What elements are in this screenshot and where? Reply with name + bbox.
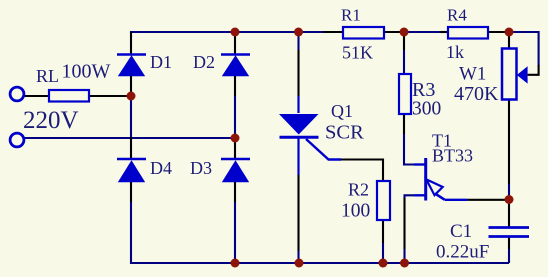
wire D3 bottom to bottom bus: [234, 202, 236, 263]
pin R2 bottom: [382, 220, 384, 243]
wire C1 bottom to bottom bus: [508, 249, 510, 263]
svg-text:D4: D4: [150, 158, 172, 178]
pin D4 anode: [130, 182, 132, 202]
pin D2 anode: [234, 76, 236, 96]
svg-text:R1: R1: [341, 6, 361, 25]
svg-text:100W: 100W: [62, 61, 111, 83]
pin W1 top: [508, 33, 510, 49]
wire D2 bottom to node: [234, 96, 236, 138]
resistor RL body: [49, 90, 89, 102]
junction bottom bus / D3: [231, 259, 240, 268]
pin D1 anode: [130, 76, 132, 96]
diode D3: [221, 159, 250, 182]
pin R1 left: [323, 31, 343, 33]
wire node A down toward D4: [130, 96, 132, 137]
pin R3 bottom: [403, 114, 405, 134]
pin D3 anode: [234, 182, 236, 202]
svg-text:W1: W1: [459, 64, 486, 85]
pin SCR anode: [297, 50, 299, 96]
svg-text:R4: R4: [447, 6, 467, 25]
junction top bus / D2: [231, 28, 240, 37]
svg-text:470K: 470K: [454, 83, 499, 105]
diode D2: [221, 55, 250, 77]
svg-text:SCR: SCR: [325, 122, 364, 144]
potentiometer W1 wiper arrow: [517, 66, 528, 83]
junction R4 / W1 top: [505, 28, 514, 37]
svg-text:D1: D1: [150, 52, 172, 72]
wire top bus from D1 corner to R1: [131, 32, 323, 33]
junction bottom bus / SCR cathode: [295, 259, 304, 268]
capacitor C1 plates: [489, 228, 530, 237]
svg-text:1k: 1k: [446, 42, 464, 62]
svg-text:0.22uF: 0.22uF: [436, 242, 489, 263]
pin R4 left: [440, 31, 448, 33]
transistor T1 (UJT BT33): [414, 158, 445, 201]
pin T1 emitter: [467, 199, 505, 201]
svg-text:BT33: BT33: [432, 146, 473, 166]
node B junction (R1/R4/R3): [400, 28, 409, 37]
svg-text:300: 300: [412, 99, 441, 120]
wire R2 bottom to bottom bus: [382, 243, 384, 263]
pin D4 cathode: [130, 137, 132, 159]
pin W1 wiper corner: [528, 65, 539, 75]
pin C1 bottom: [508, 237, 510, 249]
pin D1 cathode: [130, 32, 132, 54]
wire T1 emitter blue lead: [445, 199, 468, 201]
svg-text:RL: RL: [36, 66, 59, 86]
resistor R3 body: [399, 74, 411, 114]
pin R1 right: [384, 31, 404, 33]
diode D1: [117, 55, 146, 77]
resistor R1 body: [343, 27, 384, 39]
pin C1 top: [508, 202, 510, 227]
wire node B to R4: [404, 31, 440, 33]
svg-text:100: 100: [341, 201, 370, 222]
junction bottom bus / T1 base1: [400, 259, 409, 268]
pin RL left: [24, 95, 49, 97]
pin R3 top: [403, 33, 405, 50]
pin W1 bottom: [508, 100, 510, 185]
svg-text:220V: 220V: [23, 107, 79, 134]
junction 220V line / D2-D3: [231, 134, 240, 143]
node A junction (RL/D1/D4): [127, 92, 136, 101]
pin SCR cathode: [297, 175, 299, 251]
junction top bus / SCR anode: [294, 28, 303, 37]
node C junction (W1/T1 emitter/C1): [505, 195, 514, 204]
terminal B (220V input, lower): [10, 133, 24, 147]
pin T1 base1 down: [403, 198, 405, 249]
wire W1 wiper runout: [509, 32, 539, 66]
wire node B down to R3: [403, 50, 405, 74]
svg-text:D3: D3: [190, 158, 212, 178]
wire T1 base1 corner: [405, 195, 415, 198]
wire bottom bus: [131, 202, 509, 263]
potentiometer W1 body: [502, 49, 517, 100]
wire SCR cathode stub to bottom bus: [297, 251, 299, 263]
resistor R2 body: [377, 181, 390, 220]
junction bottom bus / R2: [379, 259, 388, 268]
wire W1 bottom to node C: [508, 184, 510, 200]
resistor R4 body: [448, 27, 488, 39]
pin D2 cathode: [234, 32, 236, 54]
wire R3 bottom to T1 base2: [404, 134, 414, 165]
terminal A (220V input, upper): [10, 87, 24, 101]
diode D4: [117, 159, 146, 182]
wire 220V line to D2-D3 node: [23, 137, 235, 139]
svg-text:R2: R2: [348, 180, 369, 200]
pin D3 cathode: [234, 138, 236, 159]
pin SCR gate to R2 top: [341, 160, 383, 182]
pin R4 right: [488, 31, 509, 33]
thyristor Q1 (SCR): [279, 96, 341, 175]
svg-text:C1: C1: [450, 221, 472, 242]
wire T1 base1 to bottom bus: [403, 249, 405, 263]
svg-text:51K: 51K: [342, 43, 373, 63]
pin RL right to node A: [89, 95, 131, 97]
svg-text:D2: D2: [193, 52, 215, 72]
wire SCR anode stub from top bus: [297, 32, 299, 50]
svg-text:Q1: Q1: [331, 101, 353, 121]
